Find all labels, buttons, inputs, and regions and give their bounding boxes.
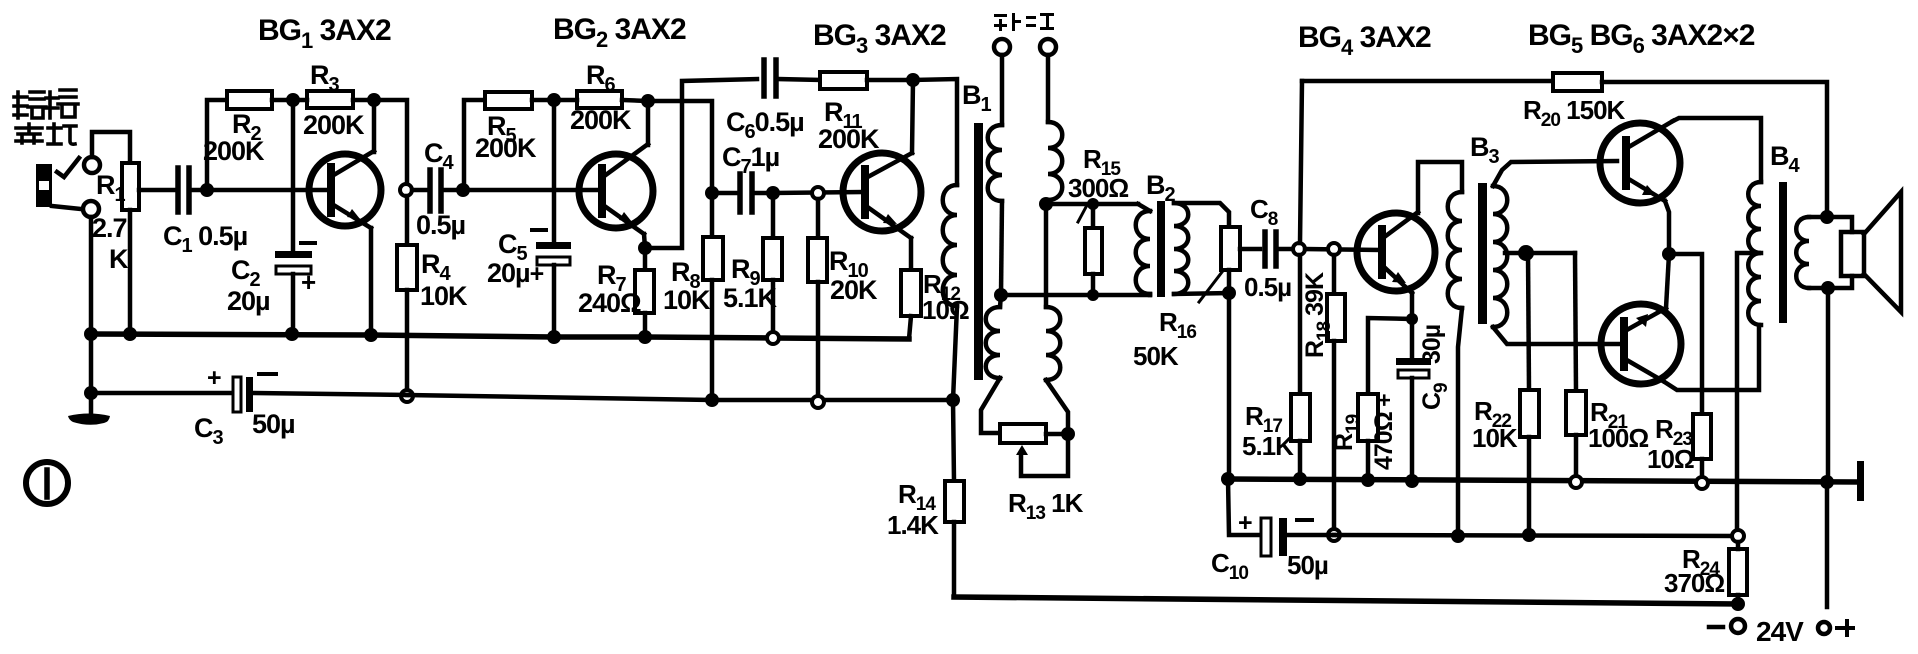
supply rail lower left <box>91 391 233 396</box>
wire emitter to R19 <box>1368 318 1412 394</box>
node speaker bottom <box>1821 281 1835 295</box>
wire B2 primary top lead <box>1138 204 1150 211</box>
wire speaker return up <box>1826 288 1831 482</box>
node BG3 collector <box>906 73 920 87</box>
transformer B4 primary winding <box>1748 182 1761 325</box>
speaker <box>1827 192 1901 312</box>
wire ground stem <box>89 334 94 419</box>
resistor R17 <box>1291 255 1310 479</box>
node R22 mid rail <box>1522 528 1536 542</box>
node base of BG1 <box>200 183 214 197</box>
svg-text:2.7: 2.7 <box>92 213 127 243</box>
capacitor C9 electrolytic <box>1396 319 1431 481</box>
wire jack sleeve to ground rail <box>89 217 94 334</box>
label minus of C5 <box>532 228 546 232</box>
resistor R20 <box>1553 73 1602 91</box>
svg-text:+: + <box>301 267 316 297</box>
node BG1 emitter at ground rail <box>364 328 378 342</box>
svg-text:5.1K: 5.1K <box>1242 431 1294 461</box>
microphone jack label 话筒塞孔 <box>14 90 78 144</box>
node R21 ground ring <box>1570 476 1582 488</box>
resistor R4 <box>397 196 417 392</box>
svg-text:200K: 200K <box>303 110 365 140</box>
svg-text:370Ω: 370Ω <box>1664 568 1724 598</box>
svg-text:10K: 10K <box>420 281 468 311</box>
resistor R8 <box>703 199 723 400</box>
wire BG6 emitter up <box>1666 254 1669 308</box>
label plus arrow <box>1837 621 1853 635</box>
transformer B4 secondary winding <box>1796 217 1809 288</box>
transformer B1 primary winding <box>943 185 957 306</box>
transformer B1 secondary lower right winding <box>1046 307 1060 380</box>
transistor BG2 <box>579 144 653 234</box>
wire B1 primary bottom to supply rail <box>953 306 957 400</box>
svg-text:470Ω +: 470Ω + <box>1370 394 1398 470</box>
wire collector node to B1 primary <box>913 79 957 185</box>
svg-text:C9: C9 <box>1418 383 1452 410</box>
svg-text:R13 1K: R13 1K <box>1008 488 1084 524</box>
resistor R10 <box>808 199 827 403</box>
node lower rail left <box>84 386 98 400</box>
wire base line BG4 <box>1305 249 1379 250</box>
resistor R13 rheostat <box>1000 424 1068 476</box>
node C9 ground rail <box>1405 474 1419 488</box>
wire R20 to speaker riser <box>1602 82 1827 216</box>
wire emitters to R23 <box>1669 254 1702 414</box>
node BG4 emitter <box>1406 313 1418 325</box>
node BG1 collector <box>367 93 381 107</box>
node BG2 emitter <box>638 241 652 255</box>
svg-text:0.5µ: 0.5µ <box>1244 272 1291 302</box>
node speaker return ground rail <box>1820 475 1834 489</box>
supply rail lower mid <box>407 395 953 400</box>
node ground rail jack <box>84 327 98 341</box>
svg-text:200K: 200K <box>475 133 537 163</box>
node C8 right ring <box>1293 243 1305 255</box>
wire BG3 emitter to R12 <box>909 238 914 270</box>
resistor R24 <box>1729 542 1747 604</box>
wire B3 primary bottom to mid rail <box>1458 308 1462 536</box>
svg-text:C10: C10 <box>1211 548 1248 584</box>
wire tap right lead <box>1046 55 1051 122</box>
node R15 top <box>1087 198 1099 210</box>
node R8 supply rail <box>705 393 719 407</box>
wire R3 left <box>293 98 307 103</box>
transformer B3 core <box>1478 183 1487 324</box>
svg-text:10K: 10K <box>1472 423 1518 453</box>
wire R16 bottom <box>1227 270 1232 293</box>
node ground rail R1 <box>123 327 137 341</box>
node R5 R6 junction <box>547 93 561 107</box>
wire BG2 emitter down <box>644 234 645 248</box>
node R16 bottom <box>1222 286 1236 300</box>
node R19 ground rail <box>1361 473 1375 487</box>
svg-text:1.4K: 1.4K <box>887 510 939 540</box>
node R18 bottom ring <box>1328 529 1340 541</box>
resistor R3 <box>307 91 353 108</box>
wire ground rail to ground bar <box>1830 480 1857 485</box>
wire B3 secondary bottom to BG6 base <box>1493 327 1621 344</box>
transformer B1 secondary upper left winding <box>988 125 1002 201</box>
node R4 bottom ring <box>401 390 413 402</box>
wire BG5 emitter down <box>1665 201 1669 254</box>
node B3 primary bottom mid rail <box>1451 529 1465 543</box>
wire BG3 collector up <box>912 80 913 153</box>
wire lower left leg to R13 <box>981 378 1000 433</box>
wire base line BG2 <box>463 188 599 193</box>
capacitor C10 electrolytic <box>1261 518 1334 556</box>
node ground rail left end <box>1221 472 1235 486</box>
node R2 R3 junction <box>286 93 300 107</box>
svg-text:5.1K: 5.1K <box>723 283 778 313</box>
wire B4 secondary bottom lead <box>1809 286 1828 291</box>
terminal B1 tap left <box>994 39 1010 55</box>
svg-text:BG2 3AX2: BG2 3AX2 <box>553 13 686 52</box>
resistor R12 <box>901 270 921 339</box>
svg-text:C3: C3 <box>194 413 224 449</box>
wire base line BG3 <box>773 192 862 193</box>
wire R5 to node <box>532 98 554 103</box>
wire tap to R21 <box>1575 253 1576 391</box>
terminal plus 24V <box>1818 622 1830 634</box>
resistor R11 <box>820 72 867 89</box>
wire BG4 base to feedback rail riser <box>1300 81 1302 243</box>
node ground rail C2 <box>285 327 299 341</box>
svg-text:50µ: 50µ <box>252 409 295 439</box>
resistor R15 <box>1085 204 1102 295</box>
svg-text:10K: 10K <box>663 285 711 315</box>
transformer B1 secondary upper right winding <box>1048 122 1062 200</box>
svg-text:240Ω: 240Ω <box>578 288 641 318</box>
capacitor C4 <box>430 170 457 211</box>
transformer B2 core <box>1157 201 1165 297</box>
microphone jack plug <box>36 158 81 209</box>
svg-text:20µ: 20µ <box>227 286 270 316</box>
wire jack tip to R1 top <box>92 132 130 163</box>
svg-text:300Ω: 300Ω <box>1068 173 1128 203</box>
mid supply rail <box>1334 535 1738 536</box>
ground rail left <box>91 334 909 339</box>
resistor R18 <box>1327 255 1345 535</box>
wire emitter to feedback riser <box>645 79 757 248</box>
wire R16 wiper to C8 <box>1240 247 1260 252</box>
wire BG4 collector to B3 <box>1418 162 1462 213</box>
node C5 ground <box>547 330 561 344</box>
wire node down to C2 <box>291 100 296 251</box>
transformer B4 core <box>1779 182 1787 323</box>
resistor R6 <box>577 91 622 108</box>
wire B2 primary bottom lead <box>1148 294 1153 295</box>
wire R6 to collector node <box>622 100 648 101</box>
node B1 primary supply rail <box>946 393 960 407</box>
feedback rail top right <box>1302 79 1553 84</box>
node speaker top <box>1820 210 1834 224</box>
capacitor C6 <box>764 60 820 96</box>
svg-text:50K: 50K <box>1133 341 1179 371</box>
node BG2 collector <box>641 94 655 108</box>
wire lower right leg to R13 <box>1046 380 1068 428</box>
wire B2 secondary bottom to R16 <box>1174 293 1229 294</box>
svg-text:+: + <box>207 364 221 392</box>
svg-text:50µ: 50µ <box>1287 550 1328 580</box>
transistor BG5 <box>1600 121 1680 203</box>
wire ground rail down to C10 <box>1228 479 1258 535</box>
node R18 top ring <box>1328 243 1340 255</box>
ground terminal right <box>1857 461 1864 501</box>
node B1 upper right junction <box>1039 197 1053 211</box>
wire B3 center tap <box>1505 251 1575 256</box>
wire BG2 collector to C7 branch <box>648 101 712 186</box>
terminal B1 tap right <box>1040 39 1056 55</box>
transformer B3 primary winding <box>1448 192 1462 308</box>
wire ring to C4 <box>412 188 427 193</box>
node R10 supply rail ring <box>812 396 824 408</box>
capacitor C1 <box>178 168 203 212</box>
wire BG6 collector to B4 primary bottom <box>1663 325 1759 390</box>
node R17 ground rail <box>1293 472 1307 486</box>
node R23 ground ring <box>1696 477 1708 489</box>
label minus of C2 <box>301 241 315 245</box>
wire R5 left leg <box>464 100 485 188</box>
wire R2 left leg <box>207 100 227 188</box>
ground rail right <box>1228 479 1857 482</box>
svg-text:10Ω: 10Ω <box>1647 444 1694 474</box>
resistor R14 <box>945 400 964 597</box>
svg-text:BG3 3AX2: BG3 3AX2 <box>813 19 946 58</box>
svg-text:B1: B1 <box>962 80 992 116</box>
node emitters junction <box>1662 247 1676 261</box>
node R13 right junction <box>1061 427 1075 441</box>
transistor BG6 <box>1601 304 1681 384</box>
wire lower bus to B2 <box>1001 293 1150 298</box>
svg-text:B2: B2 <box>1146 170 1176 206</box>
wire R6 left <box>554 98 577 103</box>
label leader tick R15 <box>1078 207 1086 222</box>
node C4 right base of BG2 <box>456 183 470 197</box>
capacitor C2 electrolytic <box>275 251 312 334</box>
resistor R21 <box>1566 391 1586 482</box>
svg-text:BG4 3AX2: BG4 3AX2 <box>1298 21 1431 60</box>
circled figure number 1 <box>26 462 68 504</box>
svg-text:R4: R4 <box>421 249 452 285</box>
svg-text:B3: B3 <box>1470 132 1500 168</box>
wire lower left junction to winding <box>1000 295 1001 307</box>
resistor R23 <box>1693 414 1711 483</box>
transformer B2 primary winding <box>1136 211 1150 294</box>
svg-text:100Ω: 100Ω <box>1588 423 1648 453</box>
transformer B2 secondary winding <box>1174 203 1188 294</box>
svg-text:C1 0.5µ: C1 0.5µ <box>163 221 247 257</box>
wire R2 to node <box>272 98 293 103</box>
jack sleeve contact terminal <box>83 201 99 217</box>
transformer B3 secondary winding <box>1493 186 1507 327</box>
wire B4 center tap <box>1737 253 1761 536</box>
wire plus terminal riser <box>1825 482 1830 607</box>
jack tip contact terminal <box>84 157 100 173</box>
node B3 center tap <box>1518 245 1534 261</box>
wire tap bus to B2 <box>1046 202 1138 207</box>
svg-text:200K: 200K <box>570 105 632 135</box>
svg-text:B4: B4 <box>1770 141 1801 177</box>
capacitor C5 electrolytic <box>536 242 571 337</box>
node B4 tap mid rail ring <box>1732 530 1744 542</box>
svg-text:+: + <box>1238 509 1252 537</box>
transformer B1 core <box>974 123 983 380</box>
label leader R16 <box>1199 272 1222 302</box>
resistor R5 <box>485 92 532 109</box>
wire B2 secondary top to R16 <box>1174 203 1229 227</box>
svg-text:20K: 20K <box>830 275 878 305</box>
wire R1 to C1 <box>139 188 175 193</box>
svg-text:R20 150K: R20 150K <box>1523 95 1626 131</box>
node C7 left <box>705 186 719 200</box>
wire B4 secondary top lead <box>1809 215 1827 220</box>
wire B3 secondary top to BG5 base <box>1493 161 1617 186</box>
wire BG4 emitter down <box>1410 293 1415 319</box>
wire tap to R22 <box>1528 253 1529 390</box>
node R24 bottom rail <box>1731 597 1745 611</box>
node C4 left ring <box>400 184 412 196</box>
svg-text:0.5µ: 0.5µ <box>416 210 465 240</box>
transistor BG3 <box>843 153 921 238</box>
svg-text:K: K <box>109 244 129 274</box>
svg-text:200K: 200K <box>203 136 265 166</box>
resistor R19 <box>1358 394 1378 480</box>
capacitor C8 <box>1265 232 1293 266</box>
resistor R16 volume <box>1221 227 1240 270</box>
wire BG2 collector up <box>646 101 651 145</box>
wire base line BG1 <box>207 188 328 193</box>
node R10 base ring <box>812 187 824 199</box>
wire BG1 collector up <box>372 100 377 152</box>
node R9 ground ring <box>767 332 779 344</box>
svg-text:C60.5µ: C60.5µ <box>726 107 804 143</box>
label external tap Chinese <box>994 13 1054 31</box>
wire node down to C5 <box>552 100 557 242</box>
label minus sign <box>1709 625 1723 630</box>
wire tap left lead <box>1000 55 1005 125</box>
label minus of C3 <box>259 372 276 376</box>
svg-text:C8: C8 <box>1250 194 1278 230</box>
ground symbol <box>68 414 110 425</box>
node R15 bottom <box>1087 289 1099 301</box>
capacitor C7 <box>719 174 767 212</box>
wire BG1 emitter down <box>369 228 374 334</box>
resistor R9 <box>763 199 782 338</box>
svg-text:R16: R16 <box>1159 307 1196 343</box>
svg-text:C71µ: C71µ <box>722 142 779 178</box>
bottom supply rail <box>954 597 1738 604</box>
node R7 ground <box>638 330 652 344</box>
node B1 lower left junction <box>994 288 1008 302</box>
svg-text:30µ: 30µ <box>1418 325 1446 364</box>
wire R16 down to ground rail right <box>1227 293 1232 479</box>
node C7 right <box>766 186 780 200</box>
wire collector node to C4 branch <box>374 100 407 184</box>
svg-text:20µ+: 20µ+ <box>487 258 544 288</box>
capacitor C3 electrolytic <box>233 377 407 412</box>
transformer B1 secondary lower left winding <box>986 307 1000 378</box>
transistor BG1 <box>309 151 381 228</box>
transistor BG4 <box>1357 212 1435 293</box>
resistor R22 <box>1520 390 1539 535</box>
terminal minus 24V <box>1731 619 1745 633</box>
wire upper left leg down <box>1001 201 1002 295</box>
label minus of C10 <box>1297 518 1312 522</box>
svg-text:BG5 BG6 3AX2×2: BG5 BG6 3AX2×2 <box>1528 19 1755 58</box>
svg-text:BG1 3AX2: BG1 3AX2 <box>258 14 391 53</box>
resistor R2 <box>227 91 272 109</box>
svg-text:200K: 200K <box>818 124 880 154</box>
resistor R7 <box>635 248 654 337</box>
resistor R1 <box>122 163 139 334</box>
svg-text:24V: 24V <box>1756 616 1804 647</box>
wire BG5 collector to B4 primary <box>1673 118 1761 182</box>
wire R3 to collector node <box>353 98 374 103</box>
wire R11 to BG3 collector node <box>867 78 913 83</box>
wire junction down through middle <box>1044 204 1049 307</box>
